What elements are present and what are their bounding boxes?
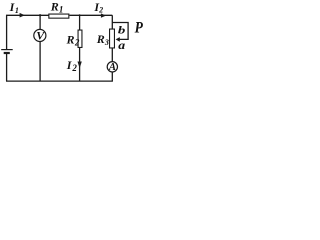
wire top left segment (6, 14, 49, 16)
wire top right segment (69, 14, 112, 16)
svg-text:a: a (118, 38, 125, 52)
svg-text:b: b (118, 23, 126, 36)
svg-text:P: P (135, 20, 143, 37)
current arrow I2 down (78, 62, 82, 69)
current arrow I2 top (101, 13, 106, 17)
wire voltmeter branch (39, 15, 41, 81)
current arrow I1 (20, 13, 25, 18)
resistor R3 (rheostat) (110, 29, 115, 48)
resistor R2 (78, 30, 82, 47)
junction node dot (R2 branch) (79, 14, 81, 16)
wire R2 branch (79, 15, 81, 81)
slider arrow of rheostat (116, 37, 120, 42)
voltmeter V (34, 29, 46, 41)
svg-text:V: V (36, 29, 45, 43)
wire bottom horizontal (6, 80, 113, 82)
resistor R1 (49, 14, 69, 18)
svg-text:A: A (108, 61, 116, 73)
battery cell (1, 50, 13, 53)
junction node dot (voltmeter branch) (39, 14, 41, 16)
wire slider P loop (112, 23, 128, 40)
ammeter A (107, 62, 117, 72)
wire left vertical (battery branch) (6, 15, 8, 81)
wire right vertical (111, 15, 113, 81)
